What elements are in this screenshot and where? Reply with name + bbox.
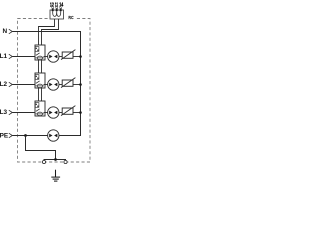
spark gap L1	[48, 51, 59, 62]
monitoring wire B: RC to module chain	[42, 19, 59, 45]
thermal disconnector box L2	[35, 73, 45, 88]
wire earth terminal link	[44, 160, 66, 163]
wire spark gap to varistor	[59, 56, 62, 58]
input arrow PE	[9, 133, 13, 138]
PE terminal right	[64, 160, 67, 163]
L2 protection path	[35, 73, 82, 101]
varistor L2	[62, 80, 73, 86]
device enclosure dashed border	[18, 19, 91, 163]
input arrow L2	[9, 82, 13, 87]
N-PE spark gap	[48, 130, 59, 141]
PE terminal left	[42, 160, 45, 163]
spark gap L3	[48, 107, 59, 118]
node L1/bus	[79, 55, 82, 58]
input arrow N	[9, 29, 13, 34]
svg-text:L2: L2	[0, 81, 8, 88]
wire L3 to disconnector	[12, 112, 35, 114]
L1 protection path	[35, 45, 82, 73]
svg-text:RC: RC	[68, 15, 74, 20]
input arrow L3	[9, 110, 13, 115]
terminal arrows above RC box	[52, 7, 62, 9]
wire varistor to bus	[73, 112, 81, 114]
white mask under RC box and RC label	[49, 8, 76, 20]
wire PE to N-PE spark gap	[12, 135, 47, 137]
wire between modules	[38, 88, 40, 101]
wire L1 to disconnector	[12, 56, 35, 58]
monitoring wire A: RC to module chain	[39, 19, 55, 45]
RC box top terminal squares	[52, 9, 62, 11]
wire L2 to disconnector	[12, 84, 35, 86]
varistor L1	[62, 52, 73, 58]
wire spark gap to varistor	[59, 112, 62, 114]
input arrow L1	[9, 54, 13, 59]
varistor L3	[62, 108, 73, 114]
node earth link	[54, 158, 57, 161]
wire spark gap to varistor	[59, 84, 62, 86]
svg-text:L1: L1	[0, 53, 8, 60]
wire between modules	[38, 60, 40, 73]
ground	[51, 170, 60, 181]
spark gap L2	[48, 79, 59, 90]
node L3/bus	[79, 111, 82, 114]
wire varistor to bus	[73, 56, 81, 58]
wire N to bus, bus down right side, to N-PE spark gap	[12, 32, 80, 136]
remote contact RC box	[50, 10, 64, 19]
thermal disconnector box L1	[35, 45, 45, 60]
terminal labels 12 11 14	[50, 3, 64, 9]
L3 protection path	[35, 101, 82, 118]
changeover contact symbol inside RC box	[53, 11, 61, 16]
svg-text:PE: PE	[0, 132, 9, 139]
node PE input	[24, 134, 27, 137]
wire PE to earth terminals	[26, 136, 56, 160]
svg-text:L3: L3	[0, 109, 8, 116]
wire varistor to bus	[73, 84, 81, 86]
thermal disconnector box L3	[35, 101, 45, 116]
node L2/bus	[79, 83, 82, 86]
svg-text:N: N	[2, 28, 7, 35]
